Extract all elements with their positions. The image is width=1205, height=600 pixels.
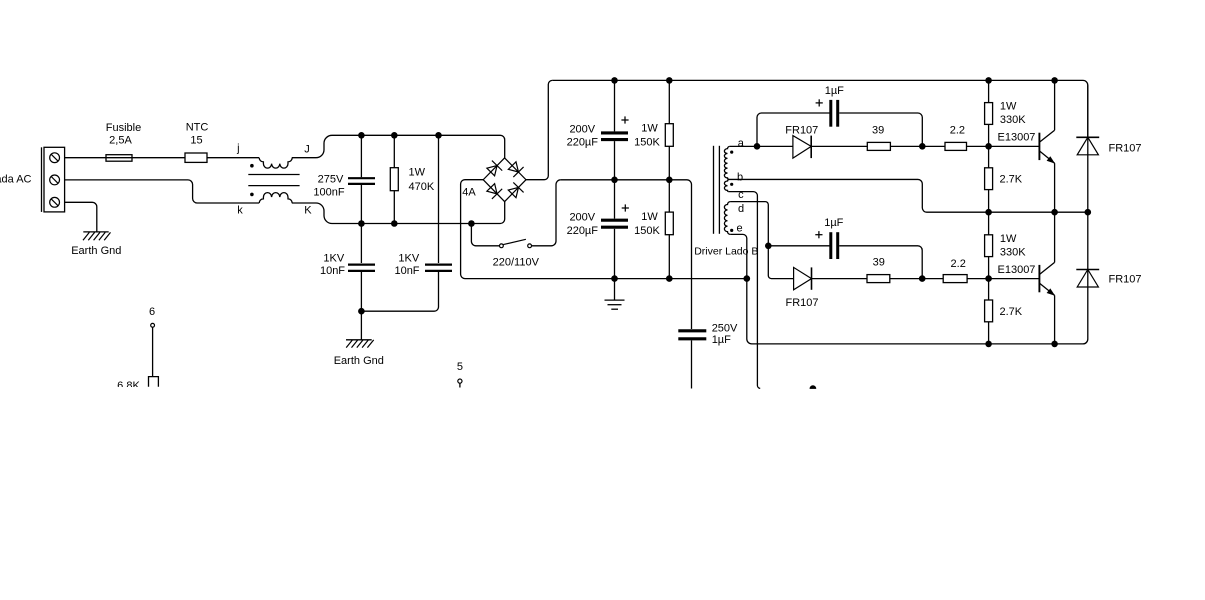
svg-text:200V: 200V	[569, 123, 595, 135]
svg-text:FR107: FR107	[1109, 273, 1142, 285]
transformer T1 winding b-c	[724, 179, 729, 191]
svg-text:1W: 1W	[1000, 233, 1017, 245]
terminal block J1 (Entrada AC)	[44, 147, 65, 212]
switch SW1 lever	[503, 239, 526, 244]
wire a bypass loop left	[757, 113, 830, 146]
crop mask bottom left	[108, 387, 168, 400]
svg-text:NTC: NTC	[186, 121, 209, 133]
svg-text:FR107: FR107	[785, 297, 818, 309]
node J bus dot 2	[391, 132, 398, 139]
svg-text:220/110V: 220/110V	[493, 256, 540, 268]
transformer T1 winding d-e	[724, 202, 730, 235]
T1 phase dot a	[730, 151, 733, 154]
wire J bus	[332, 135, 505, 158]
wire bottom terminal to earth	[65, 202, 97, 232]
svg-text:J: J	[304, 144, 310, 156]
svg-text:Driver Lado B: Driver Lado B	[694, 246, 758, 258]
svg-text:10nF: 10nF	[320, 265, 345, 277]
bridge diode D3 (L to B)	[487, 184, 497, 194]
svg-text:470K: 470K	[409, 181, 435, 193]
svg-text:c: c	[738, 189, 744, 201]
wire R10 to base Q2	[967, 278, 1039, 280]
wire C4 column	[614, 80, 616, 131]
svg-text:FR107: FR107	[785, 125, 818, 137]
wire d to cap B	[730, 202, 768, 246]
resistor R8 2.7K (stage A)	[985, 168, 993, 190]
label + (C7)	[816, 102, 823, 104]
wire Q2 emitter	[1054, 295, 1056, 344]
node d dot	[765, 243, 772, 250]
label + (C4)	[621, 119, 628, 121]
switch SW1 contact right	[528, 244, 532, 248]
choke phase dot top	[250, 164, 254, 168]
label + (C5)	[622, 207, 629, 209]
node top bus dot C4	[611, 77, 618, 84]
capacitor C2 1KV 10nF	[348, 264, 375, 266]
node cap rail dot C4	[611, 177, 618, 184]
transistor Q1 E13007	[1038, 133, 1040, 160]
node loop dot (stage B)	[919, 275, 926, 282]
svg-text:e: e	[736, 223, 742, 235]
svg-text:j: j	[236, 143, 239, 155]
node J bus dot 3	[435, 132, 442, 139]
wire c down	[729, 192, 760, 389]
svg-text:15: 15	[190, 135, 202, 147]
resistor R9 39 (stage B)	[867, 275, 890, 283]
svg-text:1µF: 1µF	[712, 334, 731, 346]
wire C5 column	[614, 180, 616, 219]
wire middle terminal jog to k	[65, 180, 260, 203]
ground earth (mid)	[346, 339, 372, 341]
svg-text:1W: 1W	[409, 167, 426, 179]
resistor R1 1W 470K	[390, 168, 398, 191]
transformer T1 core	[713, 146, 715, 234]
svg-text:39: 39	[873, 257, 885, 269]
svg-text:E13007: E13007	[998, 131, 1036, 143]
node top bus dot R7	[985, 77, 992, 84]
capacitor C1 275V 100nF	[348, 177, 375, 179]
svg-text:2.7K: 2.7K	[1000, 306, 1023, 318]
wire cap B loop right	[839, 246, 922, 279]
wire bridge plus to top bus	[526, 80, 552, 179]
wire top terminal to choke	[65, 157, 260, 159]
wire neg rail down to bottom rail	[747, 279, 1088, 344]
svg-text:1W: 1W	[641, 211, 658, 223]
bridge diode D4 (B to R)	[508, 187, 518, 197]
wire X-cap column	[360, 135, 362, 177]
wire K bus	[332, 202, 505, 224]
wire R4 column	[668, 180, 670, 212]
wire choke J to J bus	[292, 135, 332, 157]
node base node dot (stage B)	[985, 275, 992, 282]
wire Y-cap2 column	[438, 135, 440, 263]
ground IEC (neg rail)	[614, 279, 616, 301]
capacitor C6 250V 1uF	[678, 329, 706, 332]
svg-text:6: 6	[149, 306, 155, 318]
inductor L1 common-mode choke top winding	[259, 158, 292, 168]
svg-text:a: a	[738, 138, 745, 150]
svg-text:1W: 1W	[641, 123, 658, 135]
node K bus dot 1	[358, 220, 365, 227]
switch SW1 contact left	[500, 244, 504, 248]
svg-text:Fusible: Fusible	[106, 122, 141, 134]
wire e down to neg rail	[730, 234, 747, 278]
node mid rail dot Q	[1051, 209, 1058, 216]
wire Q1 collector	[1054, 80, 1056, 130]
resistor R3 1W 150K	[665, 124, 673, 147]
svg-text:K: K	[304, 204, 312, 216]
resistor 6.8K (cropped)	[149, 377, 159, 387]
svg-text:150K: 150K	[634, 225, 660, 237]
node K bus dot 3	[468, 220, 475, 227]
node earth junction dot	[358, 308, 365, 315]
svg-text:FR107: FR107	[1109, 142, 1142, 154]
wire bridge minus to negative rail	[461, 180, 747, 279]
svg-text:150K: 150K	[634, 137, 660, 149]
node neg rail dot e	[744, 275, 751, 282]
svg-text:k: k	[237, 204, 243, 216]
node a dot	[754, 143, 761, 150]
T1 phase dot e	[730, 229, 733, 232]
node top bus dot Q1	[1051, 77, 1058, 84]
svg-text:1W: 1W	[1000, 101, 1017, 113]
wire R3 column	[668, 80, 670, 123]
svg-text:4A: 4A	[462, 187, 476, 199]
diode D8 FR107 (across Q2)	[1087, 212, 1089, 287]
junction dot (cropped)	[810, 385, 817, 392]
node bottom rail dot Q2	[1051, 341, 1058, 348]
inductor L1 bottom winding	[259, 193, 292, 203]
svg-text:b: b	[737, 172, 743, 184]
resistor R6 2.2 (stage A)	[945, 142, 967, 150]
node mid rail dot col	[985, 209, 992, 216]
choke core lines	[248, 174, 299, 176]
svg-text:Entrada AC: Entrada AC	[0, 174, 32, 186]
wire choke K to K bus	[292, 203, 332, 224]
wire R6 to base Q1	[967, 145, 1040, 147]
transistor Q2 E13007	[1038, 265, 1040, 292]
svg-text:200V: 200V	[569, 212, 595, 224]
wire K dot to switch	[471, 224, 499, 246]
resistor R11 1W 330K (stage B)	[985, 235, 993, 257]
node bottom rail dot col	[985, 341, 992, 348]
node J bus dot 1	[358, 132, 365, 139]
wire D5 to R5	[811, 145, 867, 147]
node mid rail dot D	[1085, 209, 1092, 216]
wire R5 to R6	[890, 145, 945, 147]
svg-text:2,5A: 2,5A	[109, 135, 132, 147]
svg-text:39: 39	[872, 125, 884, 137]
wire a	[730, 145, 793, 147]
node K bus dot 2	[391, 220, 398, 227]
capacitor C3 1KV 10nF	[425, 264, 452, 266]
svg-text:330K: 330K	[1000, 247, 1026, 259]
wire a bypass loop right	[839, 113, 922, 146]
wire Q1 emitter	[1054, 163, 1056, 212]
svg-text:220µF: 220µF	[567, 225, 599, 237]
wire d-node down to diode B	[768, 246, 793, 279]
diode D7 FR107 (stage B)	[794, 267, 812, 289]
wire Q2 collector	[1054, 212, 1056, 262]
wire C6 bottom	[691, 340, 693, 388]
svg-text:275V: 275V	[318, 174, 344, 186]
wire 330K column B	[988, 212, 990, 235]
resistor NTC 15	[185, 153, 207, 162]
svg-text:Earth Gnd: Earth Gnd	[71, 245, 121, 257]
node base node dot (stage A)	[985, 143, 992, 150]
T1 phase dot b	[730, 183, 733, 186]
wire switch right to cap rail	[532, 180, 561, 246]
svg-text:330K: 330K	[1000, 114, 1026, 126]
resistor R7 1W 330K (stage A)	[985, 103, 993, 125]
node top bus dot R3	[666, 77, 673, 84]
resistor R4 1W 150K	[665, 212, 673, 235]
svg-text:220µF: 220µF	[567, 137, 599, 149]
choke phase dot bottom	[250, 193, 254, 197]
bridge diode D2 (T to R)	[508, 162, 518, 172]
svg-text:10nF: 10nF	[394, 265, 419, 277]
svg-text:2.7K: 2.7K	[1000, 174, 1023, 186]
svg-text:E13007: E13007	[998, 264, 1036, 276]
svg-text:100nF: 100nF	[313, 187, 344, 199]
resistor R12 2.7K (stage B)	[985, 300, 993, 322]
capacitor C7 1uF (stage A)	[829, 100, 832, 127]
capacitor C5 200V 220uF	[601, 219, 628, 222]
svg-text:2.2: 2.2	[950, 125, 965, 137]
svg-text:1µF: 1µF	[825, 85, 844, 97]
diode D5 FR107 (stage A)	[793, 136, 811, 159]
node cap rail dot R3	[666, 177, 673, 184]
node neg rail dot C5	[611, 275, 618, 282]
svg-text:Earth Gnd: Earth Gnd	[334, 355, 384, 367]
resistor R10 2.2 (stage B)	[943, 275, 967, 283]
capacitor C8 1uF (stage B)	[829, 232, 832, 259]
svg-text:1KV: 1KV	[398, 253, 419, 265]
resistor R5 39 (stage A)	[867, 142, 890, 150]
svg-text:250V: 250V	[712, 323, 738, 335]
node loop dot (stage A)	[919, 143, 926, 150]
bridge diode D1 (L to T)	[487, 166, 497, 176]
fuse F1 2,5A	[106, 155, 132, 162]
wire d-node to cap B	[768, 245, 829, 247]
wire D7 to R9	[812, 278, 868, 280]
capacitor C4 200V 220uF	[601, 131, 628, 134]
wire 2.7K column B	[988, 279, 990, 300]
bridge rectifier B1 diamond	[483, 158, 526, 202]
svg-text:2.2: 2.2	[951, 258, 966, 270]
ground earth (left)	[83, 231, 108, 233]
wire 2.7K column A	[988, 146, 990, 167]
wire top bus	[552, 80, 1088, 137]
svg-text:1KV: 1KV	[323, 253, 344, 265]
diode D6 FR107 (across Q1)	[1087, 85, 1089, 212]
svg-text:d: d	[738, 203, 744, 215]
wire R9 to R10	[890, 278, 943, 280]
wire cap rail	[561, 180, 692, 329]
wire 470K column	[393, 135, 395, 167]
svg-text:5: 5	[457, 361, 463, 373]
svg-text:1µF: 1µF	[824, 217, 843, 229]
label + (C8)	[815, 234, 822, 236]
wire 330K column A	[988, 80, 990, 102]
node neg rail dot R4	[666, 275, 673, 282]
wire b to mid rail	[728, 179, 1088, 212]
transformer T1 winding a-b	[724, 146, 729, 179]
